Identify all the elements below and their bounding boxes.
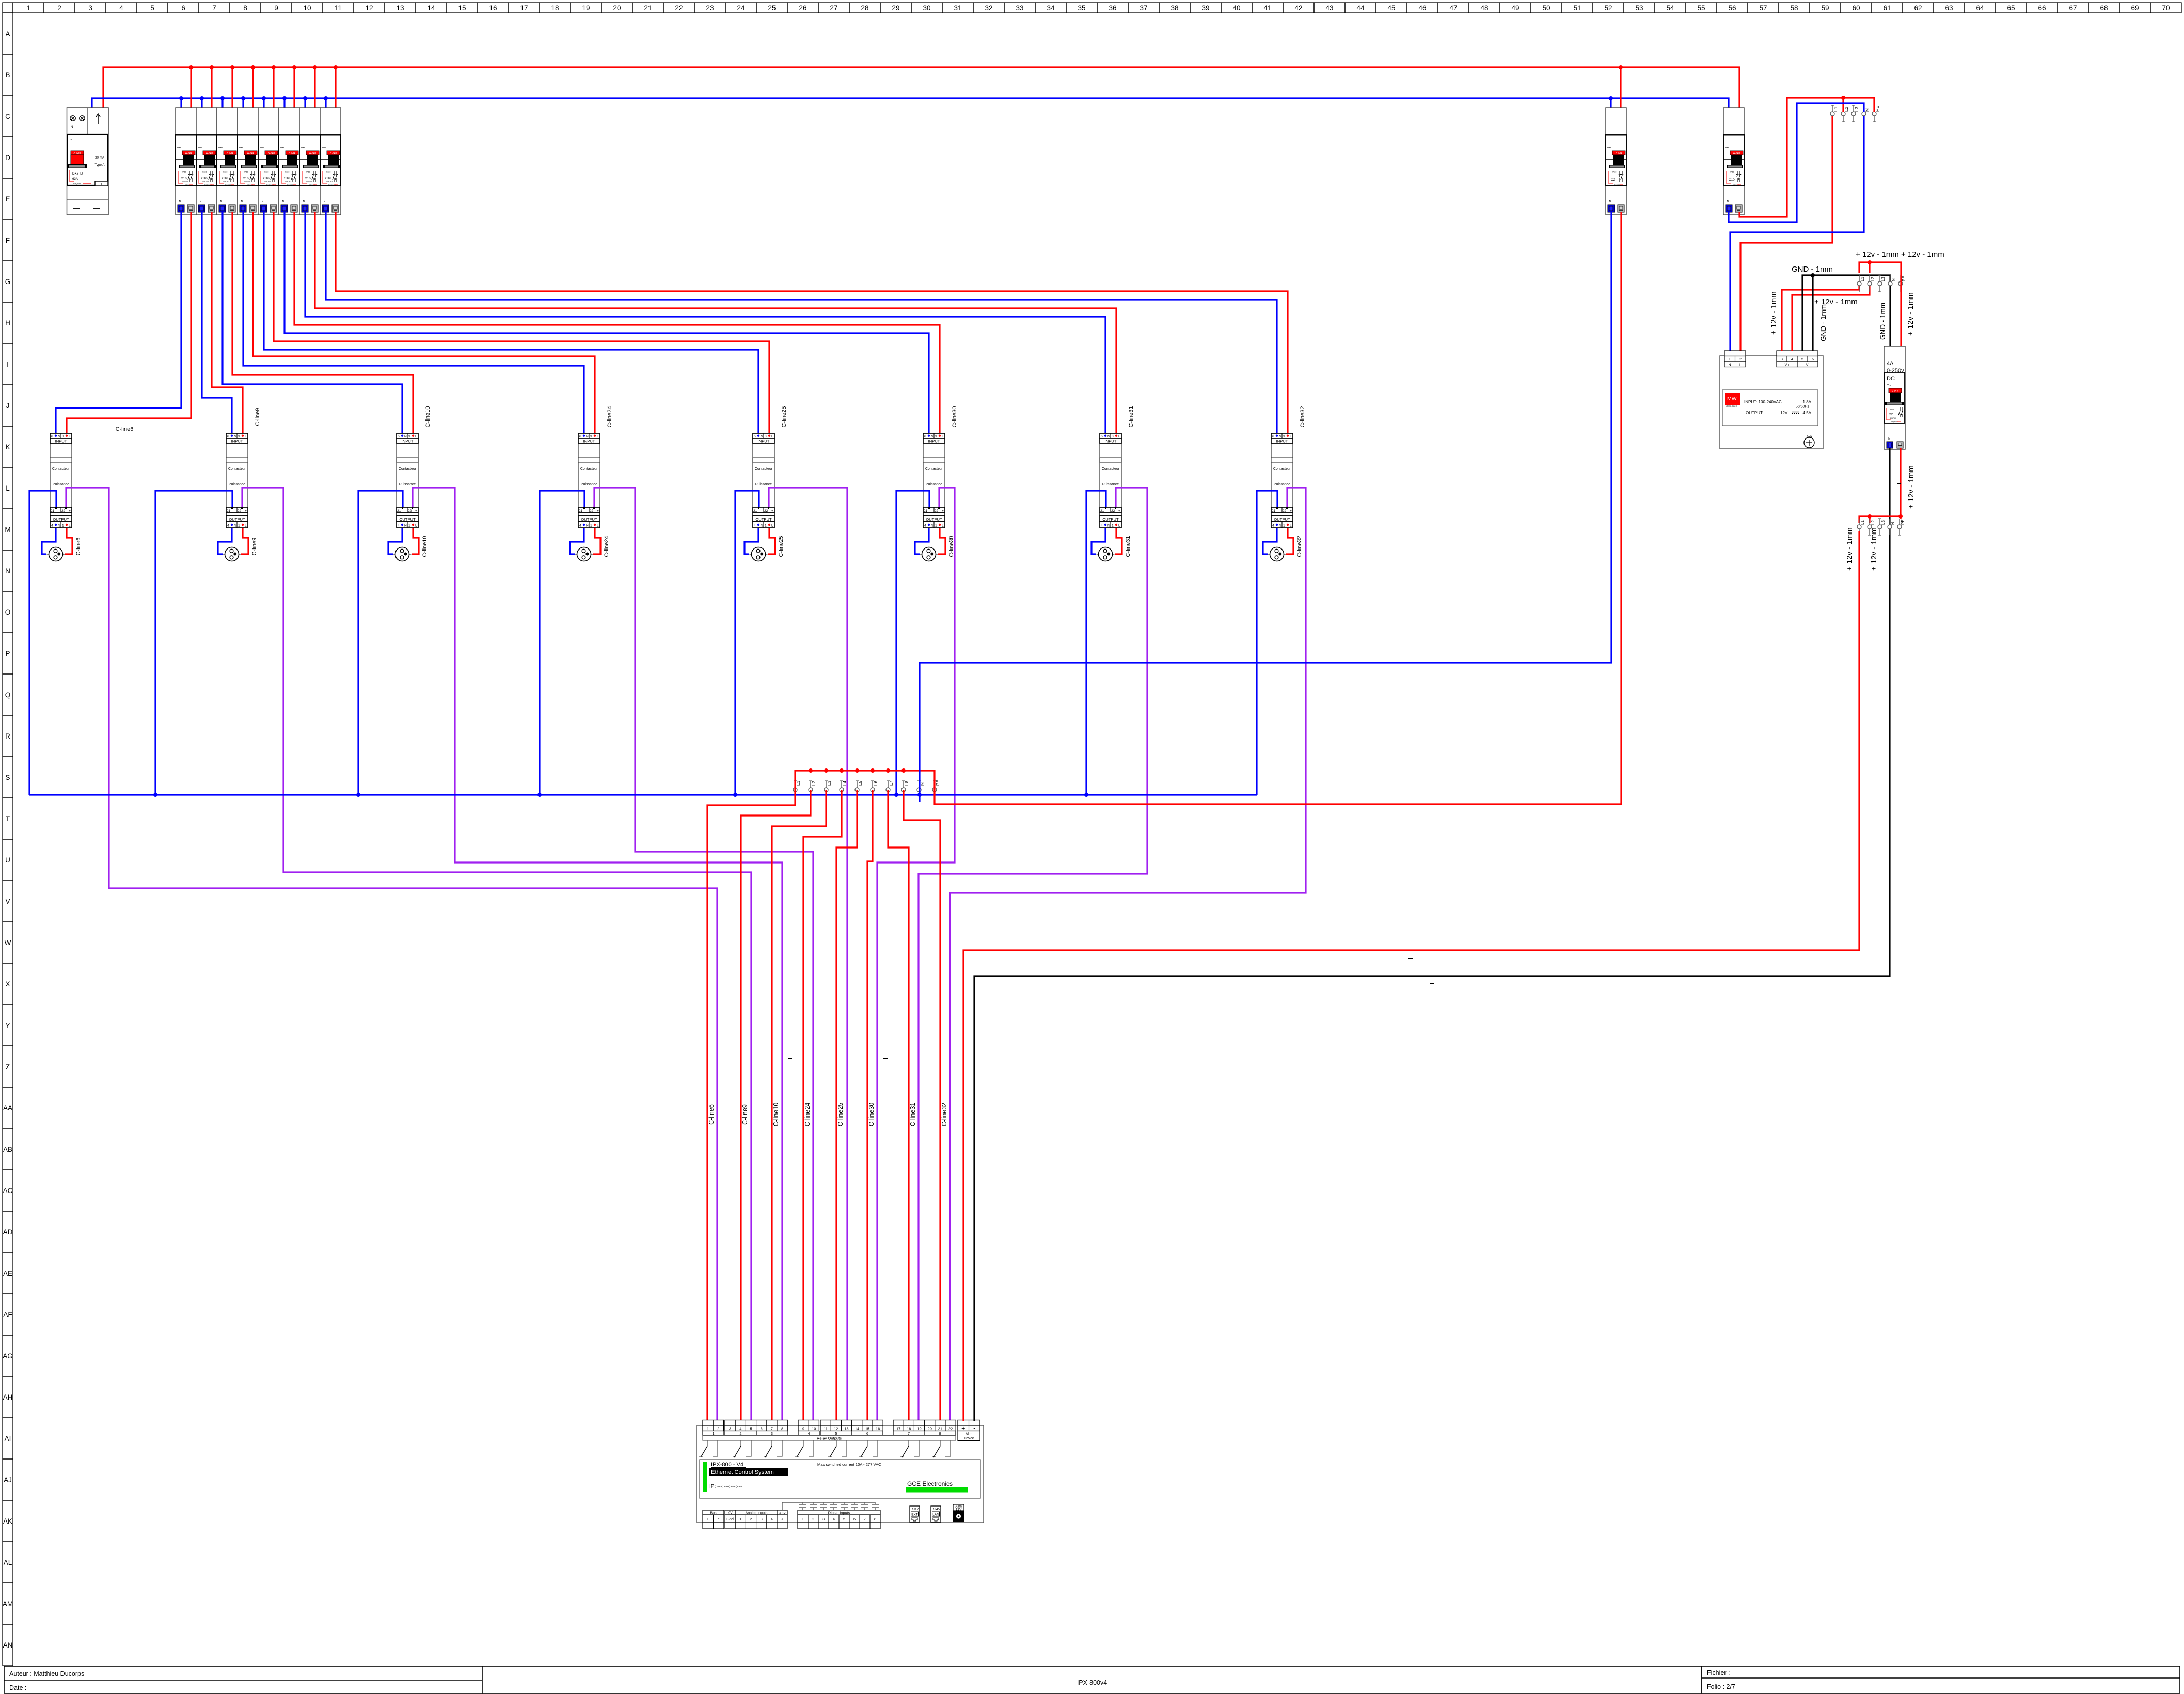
junction dots on relay phase bus [809,768,906,773]
svg-text:Digital Inputs: Digital Inputs [828,1511,850,1515]
svg-text:C-line6: C-line6 [75,538,82,556]
svg-text:50/60Hz: 50/60Hz [1796,405,1810,409]
circuit breaker C16 #6 [279,108,299,215]
svg-text:45: 45 [1387,4,1395,12]
svg-text:AF: AF [3,1311,12,1319]
wire: breaker 4 to contactor (L red) [253,212,595,435]
svg-text:22: 22 [675,4,683,12]
svg-text:5: 5 [750,1426,752,1431]
svg-text:6: 6 [181,4,185,12]
socket outlet C-line10 [393,547,412,561]
wire: contactor C-line32 output L to socket [1286,528,1293,554]
svg-text:3: 3 [1781,358,1783,362]
svg-text:INPUT: 100-240VAC: INPUT: 100-240VAC [1744,400,1782,404]
svg-text:33: 33 [1016,4,1023,12]
svg-text:12V: 12V [1780,411,1788,415]
svg-text:L8: L8 [905,781,909,786]
wire: contactor C-line9 coil - (blue) to common bus [155,491,232,795]
svg-text:70: 70 [2162,4,2170,12]
wire: relay 7 phase feed (red) connector X1 L7 to IPX [888,790,909,1421]
svg-text:AD: AD [3,1228,13,1236]
socket outlet C-line25 [750,547,768,561]
wire: breaker 3 to contactor (L red) [232,212,413,435]
svg-text:-: - [718,1516,720,1521]
svg-text:15: 15 [458,4,466,12]
wire: relay 3 phase feed (red) connector X1 L3 to IPX [772,790,826,1421]
svg-text:4A: 4A [1887,360,1894,367]
svg-text:52: 52 [1604,4,1612,12]
svg-text:16: 16 [489,4,497,12]
svg-text:C-line24: C-line24 [804,1103,811,1127]
svg-text:C-line30: C-line30 [952,406,958,428]
svg-text:C-line25: C-line25 [781,406,787,428]
svg-text:41: 41 [1263,4,1271,12]
svg-text:64: 64 [1976,4,1984,12]
wire: PSU V+ pin4 (red) to J2 L2 [1792,286,1870,351]
svg-text:W: W [5,939,11,947]
svg-text:C-line10: C-line10 [422,536,428,557]
svg-text:AA: AA [3,1104,12,1112]
svg-text:66: 66 [2038,4,2046,12]
wire: relay phase bus (red) above connector X1 [795,771,935,790]
svg-text:28: 28 [861,4,868,12]
wire: breaker 4 to contactor (N blue) [243,212,584,435]
svg-text:9: 9 [274,4,278,12]
svg-text:L: L [1739,364,1742,367]
svg-text:~: ~ [70,138,72,142]
svg-text:46: 46 [1418,4,1426,12]
wire: contactor C-line31 coil - (blue) to common bus [1086,491,1106,795]
connector J2 (L1 L2 L3 N PE) above DC breaker [1857,275,1906,292]
svg-text:19: 19 [917,1426,921,1431]
svg-text:30 mA: 30 mA [95,156,105,160]
wire: breaker 3 to contactor (N blue) [223,212,402,435]
svg-text:IPX-800v4: IPX-800v4 [1077,1679,1107,1686]
wire: relay 2 phase feed (red) connector X1 L2 to IPX [741,790,811,1421]
svg-text:C: C [5,113,10,120]
svg-text:C-line9: C-line9 [251,538,258,556]
svg-text:2: 2 [1739,358,1742,362]
wire: C10 neutral out (blue) to J1 N [1729,103,1864,222]
svg-text:2: 2 [717,1426,719,1431]
svg-text:10: 10 [812,1426,816,1431]
wire: contactor C-line32 coil - (blue) to common bus [1257,491,1277,795]
IPX-800 V4 controller U1 [697,1420,984,1523]
wire: relay 8 phase feed (red) connector X1 L8 to IPX [904,790,940,1421]
junction dots on coil return bus [153,793,1088,797]
contactor KM3 (C-line10) [397,433,418,528]
svg-text:C-line32: C-line32 [941,1103,948,1127]
svg-text:12Vcc: 12Vcc [964,1437,974,1440]
svg-text:18: 18 [907,1426,911,1431]
wire: breaker 2 to contactor (L red) [212,212,243,435]
svg-text:L1: L1 [1860,277,1865,281]
svg-text:3: 3 [761,1517,763,1522]
svg-text:L2: L2 [1871,277,1875,281]
wire: breaker 2 to contactor (N blue) [202,212,232,435]
wire: J3 L1 +12V (red) to IPX Alim + [963,531,1859,1421]
RCD differential breaker Q1 (Legrand DX3-ID 63A 30mA Type A) [67,108,109,215]
svg-text:63A: 63A [72,177,78,181]
svg-text:68: 68 [2100,4,2108,12]
wire: J3 +12V bus (red) [1859,516,1901,523]
svg-text:IPX-800 - V4: IPX-800 - V4 [711,1462,743,1468]
svg-text:I: I [7,360,9,368]
socket outlet C-line9 [223,547,241,561]
wire: contactor C-line30 output N to socket [915,528,929,554]
circuit breaker C16 #8 [320,108,341,215]
circuit breaker C16 #3 [217,108,238,215]
svg-text:N: N [1891,278,1896,281]
svg-text:Q: Q [5,691,11,699]
wire: C10 phase out (red) to J1 L2/PE [1739,98,1874,217]
svg-text:14: 14 [427,4,435,12]
svg-text:AC: AC [3,1187,13,1195]
svg-text:4: 4 [771,1517,773,1522]
svg-text:+: + [781,1517,783,1522]
wire: J1 L1 (red) to PSU L [1740,116,1832,351]
svg-text:+ 12v - 1mm: + 12v - 1mm [1907,465,1916,509]
svg-text:N: N [1865,108,1870,112]
svg-text:Auteur : Matthieu Ducorps: Auteur : Matthieu Ducorps [9,1670,84,1677]
svg-text:10: 10 [303,4,311,12]
contactor KM5 (C-line25) [753,433,774,528]
svg-text:Type A: Type A [95,163,105,167]
svg-text:31: 31 [954,4,961,12]
svg-text:L7: L7 [889,781,894,786]
wire: breaker 6 to contactor (N blue) [284,212,929,435]
svg-text:8: 8 [874,1517,876,1522]
svg-text:V-: V- [1806,364,1810,367]
svg-text:2: 2 [740,1431,742,1436]
contactor KM8 (C-line32) [1271,433,1293,528]
svg-text:L3: L3 [827,781,832,786]
svg-text:+ 12v - 1mm + 12v - 1mm: + 12v - 1mm + 12v - 1mm [1856,250,1944,259]
svg-text:N: N [1891,522,1895,525]
svg-text:PE: PE [1875,106,1880,112]
svg-text:IP: ---:---:---:---: IP: ---:---:---:--- [709,1484,742,1489]
wire: PSU V- GND bus (black) to J2 N [1802,275,1890,351]
circuit breaker C2 (coil control circuit) [1606,108,1626,215]
svg-text:8: 8 [939,1431,941,1436]
svg-text:1: 1 [707,1426,709,1431]
svg-text:30: 30 [923,4,930,12]
svg-text:V: V [5,898,10,905]
circuit breaker C16 #5 [258,108,279,215]
svg-text:X: X [5,980,10,988]
svg-text:AJ: AJ [4,1476,12,1484]
svg-text:0-250v: 0-250v [1887,368,1904,374]
svg-text:C-line24: C-line24 [607,406,613,428]
svg-text:57: 57 [1759,4,1767,12]
svg-text:12: 12 [834,1426,838,1431]
IPX inner label panel [700,1460,980,1498]
svg-text:7: 7 [864,1517,866,1522]
svg-text:A: A [5,30,10,38]
svg-text:V+: V+ [1785,364,1790,367]
svg-text:26: 26 [799,4,806,12]
svg-text:9A63: 9A63 [1890,409,1894,411]
svg-text:PE: PE [1901,519,1905,525]
svg-text:21: 21 [938,1426,942,1431]
svg-text:P: P [5,650,10,657]
svg-text:11: 11 [824,1426,828,1431]
wire: J1 N (blue) to PSU N [1730,116,1864,351]
svg-text:39: 39 [1201,4,1209,12]
svg-text:R: R [5,732,10,740]
svg-text:L3: L3 [1881,277,1886,281]
wire: breaker 5 to contactor (L red) [274,212,769,435]
svg-text:L4: L4 [843,781,847,786]
wire: PSU V+ pin3 (red) to J2 L1 [1782,286,1859,351]
svg-text:L2: L2 [1844,107,1849,112]
svg-text:C-line31: C-line31 [1128,406,1134,428]
wire: contactor C-line6 coil + (purple) to IPX relay output [66,488,717,1421]
svg-text:4: 4 [833,1517,835,1522]
svg-text:N: N [71,125,73,129]
wire: breaker 7 to contactor (L red) [315,212,1116,435]
wire: N neutral bus (top blue) [92,98,1729,112]
wire: contactor C-line24 coil + (purple) to IPX relay output [594,488,813,1421]
connector J1 (L1 L2 L3 N PE) top right [1830,105,1880,122]
svg-text:4: 4 [119,4,123,12]
wire: contactor C-line30 coil - (blue) to common bus [896,491,929,795]
svg-text:2: 2 [750,1517,752,1522]
svg-text:+ 12v - 1mm: + 12v - 1mm [1814,297,1858,306]
svg-text:25: 25 [768,4,776,12]
svg-text:Z: Z [6,1063,10,1071]
wire: contactor C-line25 output L to socket [768,528,775,554]
wire: C2 breaker feed stubs [1611,67,1621,112]
wire: J2 N (black) down to DC breaker [1889,286,1891,346]
svg-text:61: 61 [1883,4,1891,12]
svg-text:13: 13 [396,4,404,12]
svg-text:C-line25: C-line25 [837,1103,844,1127]
wire: C2 phase (red) to connector X1 PE [935,212,1621,804]
svg-text:AB: AB [3,1146,12,1153]
svg-text:O OFF: O OFF [1892,390,1899,393]
power supply PS1 (Mean Well 12V 4.5A) [1720,351,1823,449]
svg-text:14: 14 [855,1426,859,1431]
svg-text:1: 1 [1729,358,1731,362]
svg-text:1: 1 [26,4,30,12]
junction dots on top buses [179,65,1623,100]
svg-text:AG: AG [3,1352,13,1360]
svg-text:63: 63 [1945,4,1953,12]
svg-text:21: 21 [644,4,652,12]
wire: contactor C-line32 output N to socket [1263,528,1277,554]
svg-text:Gnd: Gnd [726,1517,734,1522]
svg-text:Legrand: Legrand [73,182,82,185]
svg-text:LAN: LAN [932,1513,939,1517]
svg-text:GCE Electronics: GCE Electronics [907,1480,953,1487]
svg-text:L2: L2 [812,781,816,786]
wire: contactor C-line6 output N to socket [42,528,56,554]
title block [4,1666,2180,1693]
svg-text:C-line30: C-line30 [868,1103,875,1127]
wire: coil return bus (blue, row S) [29,794,1257,795]
svg-text:7: 7 [908,1431,910,1436]
IPX bottom connectors (Bus / Analog / Digital inputs) [703,1510,880,1529]
wire: contactor C-line31 coil + (purple) to IPX relay output [919,488,1147,1421]
svg-text:AH: AH [3,1393,13,1401]
svg-text:L5: L5 [858,781,863,786]
svg-text:C-line25: C-line25 [778,536,784,557]
svg-text:62: 62 [1914,4,1922,12]
wire: breaker 7 to contactor (N blue) [305,212,1105,435]
svg-text:17: 17 [520,4,528,12]
svg-text:Ethernet Control System: Ethernet Control System [711,1469,774,1476]
svg-text:EXT: EXT [911,1513,918,1517]
svg-text:C-line32: C-line32 [1300,406,1306,428]
svg-text:65: 65 [2007,4,2015,12]
svg-text:20: 20 [928,1426,932,1431]
contactor KM4 (C-line24) [578,433,600,528]
IPX digital input pull-up symbols [782,1502,879,1510]
svg-text:35: 35 [1078,4,1085,12]
svg-text:49: 49 [1511,4,1519,12]
svg-text:58: 58 [1790,4,1798,12]
wire: contactor C-line24 output L to socket [593,528,600,554]
svg-text:34: 34 [1047,4,1055,12]
svg-text:23: 23 [706,4,714,12]
svg-text:43: 43 [1325,4,1333,12]
svg-text:47: 47 [1449,4,1457,12]
wire: contactor C-line31 output L to socket [1115,528,1122,554]
svg-text:L1: L1 [1833,107,1838,112]
svg-text:C-line24: C-line24 [604,536,610,557]
socket outlet C-line30 [920,547,938,561]
svg-text:C-line31: C-line31 [909,1103,916,1127]
wire: breaker 5 to contactor (N blue) [264,212,758,435]
IPX RJ45 LAN port [931,1506,941,1522]
circuit breaker C16 #1 [176,108,196,215]
wire: contactor C-line10 output L to socket [412,528,419,554]
svg-text:406760: 406760 [1890,417,1896,419]
svg-text:4: 4 [739,1426,741,1431]
svg-text:G: G [5,278,11,286]
svg-text:6: 6 [866,1431,868,1436]
socket outlet C-line6 [47,547,65,561]
svg-text:AE: AE [3,1269,12,1277]
svg-text:T: T [101,183,103,186]
svg-text:N: N [1888,437,1890,441]
svg-text:6: 6 [761,1426,763,1431]
svg-text:RJ45: RJ45 [932,1508,940,1511]
svg-text:7: 7 [212,4,216,12]
contactor KM2 (C-line9) [226,433,248,528]
wire: contactor C-line6 coil - (blue) to common bus [29,491,56,795]
svg-text:48: 48 [1480,4,1488,12]
wire: relay 4 phase feed (red) connector X1 L4 to IPX [803,790,842,1421]
svg-text:AL: AL [4,1559,12,1566]
svg-text:1: 1 [713,1431,715,1436]
svg-text:AK: AK [3,1517,12,1525]
small tick marks on power run [1408,483,1901,984]
svg-text:C-line6: C-line6 [708,1104,715,1125]
svg-text:22: 22 [948,1426,953,1431]
svg-text:N: N [920,782,925,786]
svg-text:N: N [5,567,10,575]
wire: contactor C-line9 output N to socket [218,528,232,554]
svg-text:24: 24 [737,4,745,12]
svg-text:60: 60 [1852,4,1860,12]
svg-text:1.8A: 1.8A [1803,400,1812,404]
svg-text:PE: PE [936,780,940,786]
svg-text:29: 29 [892,4,899,12]
svg-text:5: 5 [150,4,154,12]
svg-text:56: 56 [1728,4,1736,12]
DC circuit breaker F1 (4A 0-250v DC) [1884,346,1905,449]
svg-text:PE: PE [1902,276,1906,281]
svg-text:59: 59 [1821,4,1829,12]
svg-text:4.5A: 4.5A [1803,411,1812,415]
svg-text:Date :: Date : [9,1684,26,1691]
IPX Alim 12V DC jack [953,1504,964,1522]
svg-text:C-line30: C-line30 [948,536,955,557]
svg-text:GND - 1mm: GND - 1mm [1792,265,1833,274]
wire: contactor C-line24 coil - (blue) to common bus [540,491,584,795]
svg-text:N: N [1728,364,1731,367]
svg-text:44: 44 [1356,4,1365,12]
svg-text:19: 19 [582,4,590,12]
wire: contactor C-line9 coil + (purple) to IPX relay output [242,488,751,1421]
wire: breaker 1 to contactor C-line6 (L red) [67,212,191,435]
svg-text:C-line32: C-line32 [1296,536,1303,557]
svg-text:RJ12: RJ12 [911,1508,919,1511]
svg-text:+: + [707,1516,709,1522]
wire: breaker feed stubs from buses [181,67,336,112]
svg-text:L3: L3 [1881,520,1886,525]
wire: DC breaker +12V out (red) to J3 bus [1900,448,1901,516]
svg-text:E: E [5,195,10,203]
svg-text:38: 38 [1170,4,1178,12]
svg-text:9: 9 [802,1426,804,1431]
svg-text:18: 18 [551,4,559,12]
contactor KM6 (C-line30) [923,433,945,528]
svg-text:DC: DC [1887,375,1895,382]
svg-text:-: - [973,1424,975,1432]
svg-text:+ 12v - 1mm: + 12v - 1mm [1769,291,1778,335]
svg-text:AM: AM [3,1600,13,1608]
svg-text:6: 6 [1812,358,1814,362]
wire: relay 1 phase feed (red) connector X1 L1 to IPX [707,790,795,1421]
svg-text:7: 7 [771,1426,773,1431]
wire: breaker 8 to contactor (L red) [336,212,1288,435]
wire: breaker 1 to contactor C-line6 (N blue) [56,212,181,435]
svg-text:40: 40 [1232,4,1240,12]
wire: relay 6 phase feed (red) connector X1 L6 to IPX [867,790,873,1421]
relay contact symbols inside IPX [699,1440,951,1457]
svg-text:AN: AN [3,1641,13,1649]
svg-text:B: B [5,71,10,79]
wire: contactor C-line10 coil - (blue) to common bus [358,491,403,795]
circuit breaker C16 #2 [196,108,217,215]
socket outlet C-line24 [575,547,593,561]
svg-text:6: 6 [853,1517,856,1522]
svg-text:4: 4 [808,1431,810,1436]
svg-text:L2: L2 [1871,520,1875,525]
svg-text:O: O [5,608,11,616]
svg-text:51: 51 [1573,4,1581,12]
svg-text:C-line31: C-line31 [1125,536,1131,557]
wire: contactor C-line6 output L to socket [65,528,72,554]
svg-text:L1: L1 [1860,520,1865,525]
wire: contactor C-line24 output N to socket [570,528,584,554]
svg-text:L1: L1 [796,781,801,786]
svg-text:67: 67 [2069,4,2077,12]
svg-text:3: 3 [822,1517,825,1522]
